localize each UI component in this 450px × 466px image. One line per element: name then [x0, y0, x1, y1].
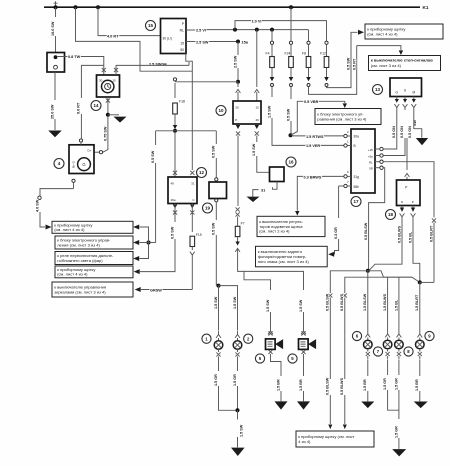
- svg-text:0.5 GN: 0.5 GN: [408, 126, 412, 138]
- ground 31 symbol: [253, 190, 259, 197]
- arrow into box E: [135, 287, 141, 292]
- svg-text:6: 6: [347, 170, 349, 174]
- svg-text:F8: F8: [302, 52, 306, 56]
- wire F7 out: [237, 237, 239, 242]
- svg-text:1: 1: [205, 336, 208, 341]
- svg-text:30a: 30a: [354, 135, 360, 139]
- svg-text:P: P: [235, 118, 237, 122]
- wire pin50 exit: [186, 54, 193, 171]
- terminal 19 bottom: [215, 199, 218, 202]
- arrow into box F: [295, 211, 299, 216]
- component K17 relay: [351, 129, 375, 193]
- junction bus-b2: [74, 5, 78, 9]
- svg-text:30: 30: [235, 105, 239, 109]
- terminal col2: [343, 293, 347, 297]
- terminal F7 connector: [235, 242, 239, 246]
- svg-text:1.5 GR: 1.5 GR: [394, 426, 398, 438]
- fuse F18: [173, 103, 178, 114]
- svg-text:1.5 SW: 1.5 SW: [267, 105, 271, 118]
- svg-text:(см. лист 2 из 4): (см. лист 2 из 4): [259, 229, 290, 234]
- wire to starter lower: [54, 119, 56, 130]
- lamp H1 turn indicator: [218, 331, 220, 335]
- component G4 generator: [69, 145, 94, 174]
- svg-text:49: 49: [171, 182, 175, 186]
- svg-text:1.5 GR: 1.5 GR: [394, 378, 398, 390]
- terminal 10 in-left: [236, 90, 241, 93]
- svg-text:зеркалами (см. лист 3 из 4): зеркалами (см. лист 3 из 4): [54, 289, 106, 294]
- wire VI to F8: [308, 30, 310, 41]
- junction callouts: [147, 241, 151, 245]
- wire lamp2 branch: [219, 286, 238, 331]
- svg-text:7: 7: [377, 349, 380, 354]
- wire generator feed lower: [80, 114, 82, 139]
- fuse F4: [270, 41, 273, 44]
- wire 12R down: [191, 204, 193, 233]
- wire lamp9 gnd: [419, 391, 421, 401]
- fuse F12: [325, 41, 328, 44]
- wire lamp1 col: [218, 286, 220, 331]
- svg-text:1.5 GR: 1.5 GR: [233, 374, 237, 386]
- svg-text:4.0 SW: 4.0 SW: [35, 199, 39, 212]
- arrow into box C: [133, 256, 139, 261]
- wire lamp8 down: [398, 360, 400, 375]
- svg-text:16.0 SW: 16.0 SW: [51, 21, 55, 36]
- wire 16 ground hook: [273, 182, 278, 190]
- wire 58b drop: [338, 186, 340, 218]
- svg-text:1.5 GR: 1.5 GR: [214, 374, 218, 386]
- pin 17-2: [344, 134, 347, 137]
- pin 17-1: [344, 144, 347, 147]
- svg-text:30 (Lr): 30 (Lr): [163, 36, 172, 40]
- pin 18 out-left: [401, 206, 403, 208]
- svg-text:8: 8: [407, 349, 410, 354]
- pin 12 out-right: [190, 205, 194, 209]
- svg-text:15: 15: [180, 42, 184, 46]
- pin 13 x405: [404, 97, 406, 100]
- wire 15a drop lower: [237, 68, 239, 81]
- wire 13-M to 18: [406, 138, 408, 170]
- component K18: [397, 180, 421, 206]
- wire 58b run: [339, 185, 344, 187]
- wire horn R gnd2: [303, 391, 305, 401]
- component S19 hazard switch: [209, 182, 227, 199]
- wire merge S: [368, 271, 420, 283]
- arrow into box G: [328, 252, 334, 257]
- terminal B+ connector: [38, 196, 41, 199]
- wire 58b drop2: [335, 239, 339, 254]
- designator 18: [386, 210, 396, 220]
- svg-text:0.5 RT: 0.5 RT: [352, 58, 356, 70]
- wire battery to starter: [54, 72, 56, 100]
- svg-text:GRSW: GRSW: [150, 288, 162, 292]
- arrow into steering box: [343, 103, 347, 108]
- svg-text:0.5 GN: 0.5 GN: [392, 126, 396, 138]
- svg-text:31: 31: [261, 188, 265, 192]
- designator 10: [216, 106, 226, 116]
- lamp E7 side indicator: [387, 331, 389, 335]
- callout E mirror switch: [52, 282, 133, 297]
- svg-text:равления (см. лист 3 из 4): равления (см. лист 3 из 4): [317, 116, 367, 121]
- wire H2 top run: [357, 46, 401, 50]
- ground lamp6: [361, 402, 374, 409]
- svg-text:D+: D+: [88, 148, 92, 152]
- junction lamps12 out: [236, 408, 240, 412]
- svg-text:15: 15: [148, 23, 154, 28]
- wire SWGE corner: [115, 65, 117, 75]
- lamp E9 rear indicator: [419, 331, 421, 335]
- svg-text:7: 7: [347, 180, 349, 184]
- svg-text:1.5 SW: 1.5 SW: [233, 296, 237, 309]
- svg-text:12: 12: [199, 170, 205, 175]
- wire 17r4 jog: [369, 168, 385, 270]
- wire merge h2: [345, 277, 412, 293]
- pin 10 out-left: [236, 125, 240, 129]
- svg-text:1: 1: [347, 139, 349, 143]
- wire 13-4 arrow: [414, 110, 422, 138]
- junction VI-F4: [270, 28, 274, 32]
- svg-text:0.5 SW: 0.5 SW: [170, 226, 174, 239]
- svg-text:0.75 SW: 0.75 SW: [103, 126, 107, 141]
- terminal generator bottom: [72, 179, 75, 182]
- wire to box B: [140, 242, 149, 244]
- wire 19 down: [215, 202, 217, 220]
- pin 17-r2: [380, 154, 383, 157]
- callout steering control box: [315, 109, 381, 125]
- wire horn R lower: [303, 312, 305, 331]
- svg-text:1.5 BLRT: 1.5 BLRT: [415, 294, 419, 311]
- wire lamp8 col: [398, 277, 400, 330]
- svg-text:2.5 SW: 2.5 SW: [196, 40, 209, 44]
- junction bus-fuses: [289, 5, 293, 9]
- svg-text:19: 19: [205, 206, 211, 211]
- wire F24 feed: [290, 7, 292, 41]
- wire to 19 lower: [215, 158, 217, 178]
- wire B+ to cluster: [40, 212, 45, 227]
- svg-text:16: 16: [288, 160, 294, 165]
- component K12 flasher relay: [168, 177, 197, 204]
- svg-text:2: 2: [347, 130, 349, 134]
- wire horn R ground: [303, 354, 305, 376]
- svg-text:1.5 SW: 1.5 SW: [239, 424, 243, 437]
- svg-text:0.5 BLSW: 0.5 BLSW: [326, 377, 330, 395]
- arrow lamps12 continuation: [231, 448, 245, 456]
- wire 14 bottom: [107, 97, 109, 114]
- wire F12 feed upper: [235, 21, 327, 41]
- svg-text:0.5 BLWS: 0.5 BLWS: [340, 377, 344, 395]
- wire to box A: [140, 227, 149, 243]
- junction 14-ground: [106, 113, 110, 117]
- wire lamp7 down: [387, 360, 389, 375]
- wire 15 exit: [186, 41, 196, 43]
- svg-text:0.5 SW: 0.5 SW: [151, 150, 155, 163]
- wire 14 to D+: [103, 116, 108, 152]
- svg-text:0.5 BLWS: 0.5 BLWS: [397, 225, 401, 243]
- terminal D+ circle: [99, 151, 102, 154]
- arrow into H2: [399, 50, 403, 55]
- terminal generator top: [79, 139, 82, 142]
- wire lamps12 tail: [237, 410, 239, 419]
- callout D instrument cluster: [55, 266, 133, 278]
- arrow into box D: [134, 269, 140, 274]
- svg-text:15: 15: [112, 79, 116, 83]
- wire F4 feed: [271, 30, 273, 41]
- callout B electronic control: [55, 236, 133, 249]
- wire bus-b2 drop: [76, 7, 193, 71]
- wire B+ down: [73, 182, 75, 188]
- svg-text:13: 13: [375, 87, 381, 92]
- svg-text:15a: 15a: [242, 40, 249, 44]
- callout H1 instrument cluster: [365, 24, 443, 39]
- svg-text:ного знака (см. лист 3 из 4): ного знака (см. лист 3 из 4): [258, 259, 310, 264]
- wire x155 drop: [155, 131, 157, 145]
- terminal pin 14 left: [102, 68, 106, 72]
- wire horn L gnd2: [280, 391, 282, 401]
- designator 14: [91, 101, 101, 111]
- pin 17-r4: [380, 166, 383, 169]
- arrow into box A right: [133, 225, 139, 230]
- wire 18L down: [369, 217, 402, 270]
- wire RL exit: [186, 29, 196, 31]
- svg-text:0.3 GR: 0.3 GR: [334, 227, 338, 239]
- wire horn left branch: [244, 271, 271, 290]
- wire lamp1 down: [218, 360, 220, 371]
- wire 31g run: [302, 175, 344, 177]
- svg-text:1.5 BR: 1.5 BR: [415, 379, 419, 391]
- svg-text:4.0 RT: 4.0 RT: [107, 34, 119, 38]
- terminal 19 top: [215, 178, 218, 181]
- svg-text:B: B: [354, 144, 356, 148]
- svg-text:F12: F12: [320, 52, 326, 56]
- svg-text:1.5 SW: 1.5 SW: [252, 143, 256, 156]
- wire branch to generator feed: [81, 65, 103, 98]
- svg-text:RL: RL: [180, 28, 184, 32]
- junction lamp9: [418, 280, 422, 284]
- wire 10 to 16: [256, 136, 258, 143]
- wire lamp8 down2: [398, 390, 400, 419]
- junction bus-b3: [96, 5, 100, 9]
- horn B5 right: [301, 331, 306, 334]
- svg-text:го/ближнего света (фар): го/ближнего света (фар): [57, 258, 103, 263]
- svg-text:31g: 31g: [354, 175, 360, 179]
- svg-text:C: C: [192, 198, 195, 202]
- svg-text:0.5 GN: 0.5 GN: [400, 126, 404, 138]
- designator 13: [373, 85, 383, 95]
- svg-text:18: 18: [388, 212, 394, 217]
- ground starter arrow: [48, 131, 62, 138]
- wire VBR riser: [291, 101, 345, 135]
- svg-text:+15: +15: [368, 148, 373, 152]
- svg-text:0.5 BLRT: 0.5 BLRT: [429, 225, 433, 242]
- pin 13 x396.8: [396, 97, 398, 100]
- wire F18 bottom: [174, 114, 176, 125]
- svg-text:0.3 BRWS: 0.3 BRWS: [304, 175, 322, 179]
- svg-text:15: 15: [255, 105, 259, 109]
- svg-text:49: 49: [255, 118, 259, 122]
- wire lamp2 down: [237, 360, 239, 371]
- wire inst col1: [329, 298, 331, 380]
- svg-text:2.5 VI: 2.5 VI: [196, 28, 206, 32]
- wire inst col2: [344, 298, 346, 380]
- svg-text:1.5 VER: 1.5 VER: [306, 144, 320, 148]
- fuse F24: [289, 41, 292, 44]
- svg-text:(см. лист 4 из 4): (см. лист 4 из 4): [54, 227, 85, 232]
- designator 15: [146, 21, 156, 31]
- svg-text:2: 2: [247, 336, 250, 341]
- wire D+ stub: [94, 151, 99, 153]
- wire 31g corner: [297, 176, 302, 210]
- wire horn L lower: [270, 312, 272, 331]
- horn B5 left: [268, 331, 273, 334]
- wire SWGE run: [116, 64, 189, 66]
- wire RTWS run: [292, 135, 344, 137]
- wire 13-G to 17: [383, 110, 397, 149]
- ground horn R: [297, 401, 310, 409]
- wire battery drop upper: [55, 7, 57, 17]
- wire 2.5VI run: [196, 29, 309, 31]
- svg-text:S: S: [404, 89, 406, 93]
- svg-text:6: 6: [356, 334, 359, 339]
- pin 17-r1: [380, 147, 383, 150]
- svg-text:17: 17: [353, 199, 359, 204]
- wire F18 link: [175, 81, 238, 83]
- junction 15a-F18: [236, 80, 240, 84]
- svg-text:5: 5: [291, 356, 294, 361]
- terminal col1: [328, 293, 332, 297]
- svg-text:4 из 4): 4 из 4): [298, 439, 311, 444]
- wire inst2 tail: [344, 395, 346, 424]
- svg-text:1.5 BL: 1.5 BL: [394, 299, 398, 311]
- svg-text:1.5 RTWS: 1.5 RTWS: [306, 135, 324, 139]
- ground lamp9: [414, 402, 428, 409]
- pin 12 out-left: [173, 205, 177, 209]
- arrow inst2: [343, 425, 347, 430]
- wire 12L down: [174, 204, 176, 223]
- svg-text:+5a: +5a: [368, 154, 373, 158]
- component X13 connector: [390, 78, 422, 97]
- terminal 10 in-right: [254, 90, 259, 93]
- wire to box E: [141, 289, 192, 291]
- wire F7 stub: [237, 217, 239, 227]
- svg-text:1.5 BR: 1.5 BR: [276, 379, 280, 391]
- wire F18 stub: [174, 83, 176, 98]
- wire horn feed upper: [237, 136, 239, 207]
- fuse F19: [190, 236, 195, 246]
- svg-text:0.5 BLSW: 0.5 BLSW: [364, 222, 368, 240]
- wire battery drop lower: [55, 36, 57, 53]
- svg-text:1.5 BLWS: 1.5 BLWS: [383, 293, 387, 311]
- svg-text:0.8 TW: 0.8 TW: [68, 55, 81, 59]
- svg-text:14: 14: [93, 103, 99, 108]
- wire horn bus: [238, 249, 304, 291]
- junction F18 out: [173, 129, 177, 133]
- junction lamps12: [217, 284, 221, 288]
- wire horn L ground: [271, 354, 282, 376]
- pin 18 out-right: [412, 206, 414, 208]
- callout A instrument cluster: [52, 221, 133, 233]
- svg-text:9: 9: [428, 334, 431, 339]
- wire merge h1: [330, 271, 368, 293]
- svg-text:4: 4: [58, 161, 61, 166]
- arrow inst1: [328, 425, 332, 430]
- wire F24 down: [290, 87, 292, 100]
- svg-text:F24: F24: [285, 52, 291, 56]
- pin 17-7: [344, 184, 347, 187]
- junction RTWS: [289, 133, 293, 137]
- terminal F18 top: [173, 78, 176, 81]
- svg-text:F19: F19: [196, 233, 202, 237]
- designator 4: [54, 159, 64, 169]
- svg-text:0.5 SW: 0.5 SW: [286, 108, 290, 121]
- junction VI-lightswitch: [255, 28, 259, 32]
- wire 10 to 16 lower: [257, 156, 270, 172]
- svg-text:1.5 SW: 1.5 SW: [266, 299, 270, 312]
- wire 15a drop upper: [237, 42, 239, 56]
- wire 12L to box D: [140, 239, 175, 272]
- wire F24 down2: [290, 121, 292, 134]
- ground horn L: [275, 401, 288, 409]
- pin 17-6: [344, 175, 347, 178]
- svg-text:(см. лист 3 из 4): (см. лист 3 из 4): [371, 63, 402, 68]
- wire 19 down2: [215, 235, 217, 286]
- svg-text:5: 5: [259, 356, 262, 361]
- ground clock branch: [108, 114, 119, 116]
- wire lamps12 tail2: [237, 437, 239, 447]
- svg-text:1.0 VI: 1.0 VI: [252, 19, 262, 23]
- svg-text:1.5 BR: 1.5 BR: [363, 379, 367, 391]
- terminal pin 14 right: [114, 68, 118, 72]
- lamp H2 turn indicator: [237, 331, 239, 335]
- pin 17-r3: [380, 160, 383, 163]
- lamp E8 side indicator: [398, 331, 400, 335]
- wire F8 down: [309, 46, 357, 95]
- wire lamp6 col: [367, 271, 369, 331]
- connector X1 (3): [47, 53, 65, 73]
- component S10 switch: [233, 101, 261, 124]
- pin 10 out-right: [255, 125, 259, 129]
- wire inst1 tail: [329, 395, 331, 424]
- junction 15a: [236, 40, 240, 44]
- svg-text:1.5 BLSW: 1.5 BLSW: [363, 293, 367, 311]
- svg-text:(см. лист 4 из 4): (см. лист 4 из 4): [367, 31, 398, 36]
- junction lamp6: [366, 269, 370, 273]
- svg-text:F18: F18: [179, 99, 185, 103]
- wire hazard bus: [156, 130, 217, 132]
- callout F lighting regulator: [257, 216, 325, 236]
- svg-text:2.5 SW: 2.5 SW: [233, 55, 237, 68]
- svg-text:6.0 RT: 6.0 RT: [77, 102, 81, 114]
- junction VI-F12feed: [233, 28, 237, 32]
- wire F19 out: [191, 247, 193, 251]
- wire into 12 left: [174, 133, 176, 177]
- wire x155 drop2: [155, 163, 157, 243]
- fuse F8: [307, 41, 310, 44]
- svg-text:30: 30: [99, 79, 103, 83]
- designator 12: [197, 168, 207, 178]
- svg-text:0.5 BL: 0.5 BL: [408, 231, 412, 243]
- wire into 14 left pin: [103, 65, 105, 75]
- svg-text:N: N: [401, 200, 403, 204]
- svg-text:K1: K1: [423, 5, 429, 10]
- wire lamp7 merge: [388, 390, 399, 410]
- svg-text:1.5 SW: 1.5 SW: [214, 296, 218, 309]
- terminal 12 in-right: [190, 171, 194, 175]
- svg-text:50: 50: [180, 48, 184, 52]
- wire lamp9 down: [419, 360, 421, 376]
- svg-text:5R: 5R: [369, 166, 373, 170]
- svg-text:0.5 SW: 0.5 SW: [347, 57, 351, 70]
- arrow into box A: [46, 225, 52, 230]
- svg-text:0.5 VBR: 0.5 VBR: [304, 100, 319, 104]
